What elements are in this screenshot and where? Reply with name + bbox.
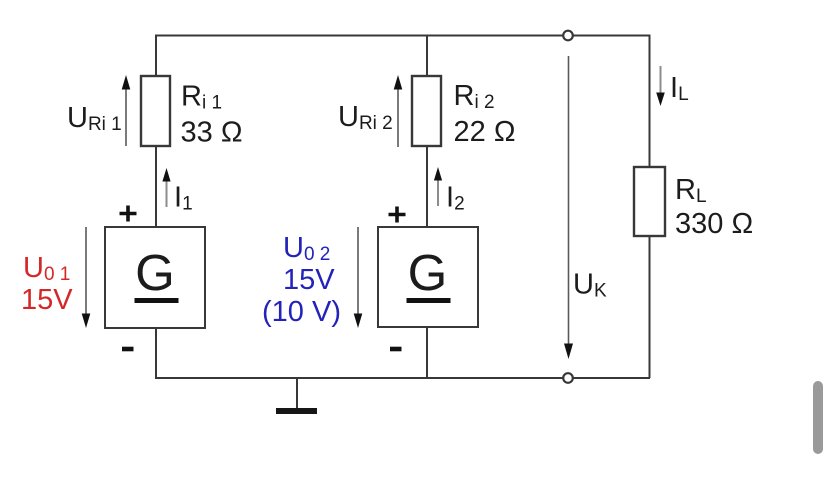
scrollbar [813, 381, 823, 454]
arrow U_K (voltage arrow, down) [564, 56, 573, 359]
svg-text:330 Ω: 330 Ω [675, 208, 753, 240]
svg-text:(10 V): (10 V) [262, 296, 341, 328]
label I_L [670, 72, 689, 105]
wire branch2 middle segment [426, 146, 428, 227]
wire branch1 bottom segment [155, 328, 157, 379]
svg-text:15V: 15V [21, 284, 73, 316]
node K- (bottom terminal circle) [563, 373, 573, 383]
arrow U_Ri2 (voltage arrow, up) [394, 75, 403, 147]
label 22 Ohm [454, 116, 516, 148]
wire branch2 top segment [426, 35, 428, 77]
resistor R_i2 [412, 76, 441, 146]
label I1 [174, 182, 193, 215]
plus sign G2 [389, 207, 406, 223]
voltage source G2 box [378, 227, 478, 327]
G1 underline [135, 298, 179, 303]
arrow U_02 (voltage arrow, down) [354, 227, 363, 328]
label R_i1 [181, 81, 222, 114]
arrow U_01 (voltage arrow, down) [82, 227, 91, 328]
label U_Ri2 [338, 101, 393, 134]
svg-text:33 Ω: 33 Ω [181, 117, 243, 149]
wire branch2 bottom segment [426, 327, 428, 379]
label U_Ri1 [67, 102, 122, 135]
label 33 Ohm [181, 117, 243, 149]
ground [276, 408, 317, 414]
label 330 Ohm [675, 208, 753, 240]
resistor R_i1 [141, 76, 170, 146]
label G1 glyph [135, 244, 175, 301]
wire top bus [155, 35, 650, 37]
resistor R_L [634, 167, 665, 236]
arrow U_Ri1 (voltage arrow, up) [122, 75, 131, 146]
wire right branch bottom segment [649, 236, 651, 378]
G2 underline [407, 298, 451, 303]
wire bottom bus [155, 377, 650, 379]
wire right branch top segment [649, 35, 651, 168]
wire branch1 top segment [155, 35, 157, 77]
label U_K [573, 269, 607, 302]
svg-text:22 Ω: 22 Ω [454, 116, 516, 148]
arrow I1 (current arrow, up) [162, 168, 170, 207]
label R_i2 [454, 80, 495, 113]
svg-text:15V: 15V [283, 264, 335, 296]
label 15V source 2 (blue) [283, 264, 335, 296]
svg-text:G: G [408, 244, 448, 301]
label 15V source 1 (red) [21, 284, 73, 316]
node K+ (top terminal circle) [563, 31, 573, 41]
label G2 glyph [408, 244, 448, 301]
label U_02 (blue) [283, 232, 330, 265]
wire branch1 middle segment [155, 146, 157, 227]
ground stub wire [296, 378, 298, 408]
arrow I_L (current arrow, down) [656, 66, 665, 106]
voltage source G1 box [105, 227, 205, 328]
label I2 [446, 182, 465, 215]
svg-text:G: G [135, 244, 175, 301]
minus sign G1 [122, 347, 134, 352]
arrow I2 (current arrow, up) [434, 167, 442, 206]
minus sign G2 [390, 347, 402, 352]
label (10 V) source 2 (blue) [262, 296, 341, 328]
label R_L [675, 174, 707, 207]
plus sign G1 [120, 206, 137, 222]
label U_01 (red) [23, 252, 70, 285]
